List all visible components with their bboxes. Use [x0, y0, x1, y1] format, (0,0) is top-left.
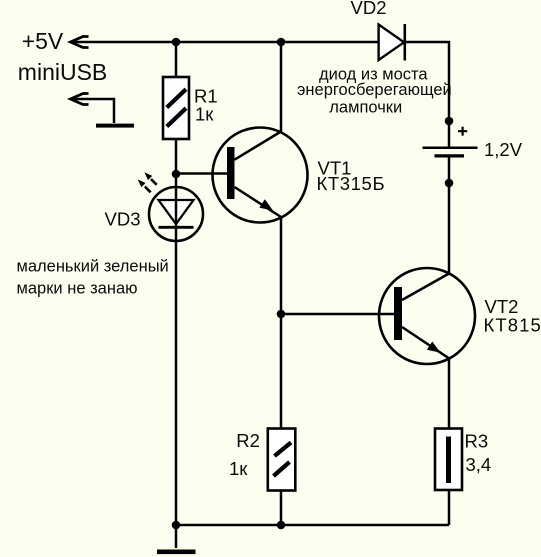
node dot bottom left — [172, 521, 181, 530]
node dot battery bottom — [445, 179, 454, 188]
svg-text:R2: R2 — [236, 430, 260, 451]
node dot VT2 base — [277, 310, 286, 319]
wire miniUSB stub — [71, 99, 115, 123]
svg-text:1к: 1к — [229, 458, 248, 479]
wire battery to VT2 — [448, 157, 451, 274]
wire bottom rail — [176, 524, 449, 527]
resistor R3 — [435, 429, 462, 491]
wire R1 top — [175, 42, 178, 77]
svg-text:1,2V: 1,2V — [484, 139, 523, 160]
node dot top VT1 — [277, 38, 286, 47]
svg-text:лампочки: лампочки — [329, 99, 402, 117]
node dot top R1 — [172, 38, 181, 47]
connector plate miniUSB — [96, 124, 134, 128]
svg-text:марки не занаю: марки не занаю — [17, 280, 138, 298]
svg-text:VD3: VD3 — [105, 208, 141, 229]
wire R2 top — [280, 427, 283, 430]
wire VT1 emitter down — [280, 217, 283, 428]
wire arrow miniUSB — [71, 94, 89, 105]
wire base VT1 — [176, 172, 227, 175]
svg-text:энергосберегающей: энергосберегающей — [297, 81, 452, 99]
LED arrows — [138, 172, 157, 192]
wire VD2 to corner — [405, 42, 449, 147]
svg-text:VD2: VD2 — [351, 0, 387, 18]
node dot battery top — [445, 117, 454, 126]
svg-text:3,4: 3,4 — [466, 454, 492, 475]
transistor VT1 — [213, 128, 308, 223]
svg-text:+5V: +5V — [22, 28, 64, 54]
wire VT1 collector — [280, 42, 283, 132]
svg-text:КТ815: КТ815 — [484, 314, 541, 335]
svg-text:miniUSB: miniUSB — [18, 59, 107, 85]
ground — [157, 550, 196, 555]
wire R3 to bottom — [448, 490, 451, 525]
wire arrow +5V — [71, 37, 89, 48]
wire base VT2 — [281, 313, 394, 316]
svg-text:R3: R3 — [465, 431, 489, 452]
wire top rail — [71, 41, 379, 44]
battery G1 — [423, 146, 478, 149]
wire ground stub — [175, 525, 178, 548]
svg-text:1к: 1к — [195, 104, 214, 125]
node dot bottom R2 — [277, 521, 286, 530]
wire R2 bottom — [280, 491, 283, 526]
node dot R1 LED — [172, 170, 181, 179]
wire LED to bottom — [175, 241, 178, 525]
svg-text:КТ315Б: КТ315Б — [317, 173, 386, 194]
battery G1 plus — [458, 127, 467, 136]
wire VT2 emitter to R3 — [448, 358, 451, 428]
transistor VT2 — [379, 268, 475, 364]
resistor R2 — [268, 429, 296, 491]
diode VD2 — [379, 24, 405, 61]
wire R1 to LED — [175, 139, 178, 188]
LED VD3 — [149, 187, 203, 241]
resistor R1 — [163, 77, 189, 139]
svg-text:маленький зеленый: маленький зеленый — [17, 258, 169, 276]
